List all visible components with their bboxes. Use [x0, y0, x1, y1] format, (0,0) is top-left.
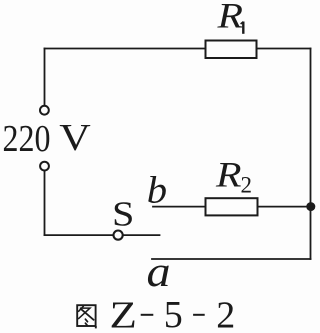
- subscript 1 of R1: [241, 22, 244, 34]
- wire top horizontal: [45, 48, 311, 50]
- terminal circle bottom (source -): [40, 162, 49, 171]
- wire right vertical: [310, 49, 312, 260]
- svg-text:S: S: [112, 195, 134, 234]
- svg-text:5: 5: [164, 294, 183, 333]
- caption character 图: [77, 305, 96, 328]
- svg-text:2: 2: [216, 294, 235, 333]
- resistor R2: [206, 198, 258, 215]
- svg-text:b: b: [147, 169, 167, 211]
- wire bottom (contact a lead): [152, 258, 311, 260]
- caption dash 2: [193, 314, 205, 316]
- wire left bottom vertical (battery to switch corner): [44, 172, 46, 236]
- caption dash 1: [141, 314, 154, 316]
- svg-text:Z: Z: [110, 294, 137, 333]
- wire switch blade: [123, 234, 159, 236]
- svg-text:V: V: [59, 117, 91, 159]
- wire bottom-left horizontal to switch: [45, 234, 113, 236]
- wire R2 branch (contact b lead to node): [153, 206, 311, 208]
- terminal circle top (source +): [40, 106, 49, 115]
- wire top-left vertical (corner to top battery terminal): [44, 49, 46, 106]
- svg-text:R: R: [215, 155, 242, 195]
- resistor R1: [206, 41, 257, 59]
- svg-text:2: 2: [241, 173, 253, 198]
- svg-text:R: R: [216, 0, 243, 36]
- svg-text:a: a: [147, 247, 171, 295]
- node junction dot: [306, 202, 315, 211]
- switch S contact circle: [114, 231, 123, 240]
- svg-text:220: 220: [3, 118, 51, 160]
